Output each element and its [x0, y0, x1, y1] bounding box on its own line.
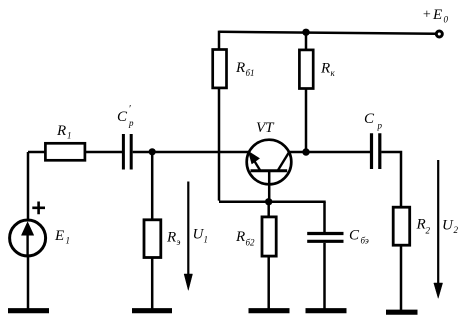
svg-text:R: R [56, 123, 66, 139]
terminal +E0 [436, 31, 442, 37]
svg-text:R: R [166, 230, 176, 246]
transistor emitter diagonal with arrow [249, 152, 261, 171]
voltage source E1 [27, 152, 30, 220]
resistor Rk [299, 50, 313, 89]
wire base rail [219, 201, 326, 204]
svg-text:R: R [235, 229, 245, 245]
wire Re bottom lead [151, 258, 154, 311]
svg-text:бэ: бэ [361, 236, 369, 246]
wire collector to Cp [289, 151, 370, 154]
capacitor Cp [372, 133, 380, 169]
svg-text:2: 2 [454, 225, 459, 235]
svg-text:1: 1 [67, 131, 72, 141]
svg-text:C: C [364, 111, 375, 127]
svg-text:E: E [54, 228, 64, 244]
resistor Re [144, 220, 161, 258]
svg-text:VT: VT [256, 120, 275, 136]
transistor VT body [247, 140, 292, 185]
node top rail / Rk junction [302, 29, 309, 36]
node collector / Rk junction [302, 148, 309, 155]
svg-text:0: 0 [444, 15, 449, 25]
transistor collector diagonal [278, 152, 290, 171]
wire R2 bottom lead [400, 245, 403, 312]
wire Cbe bottom lead [323, 243, 326, 310]
resistor R1 [45, 143, 85, 160]
wire Rb1 top lead [218, 31, 221, 50]
capacitor Cbe [307, 234, 343, 242]
resistor Rb2 [262, 217, 276, 256]
svg-text:E: E [432, 7, 442, 23]
capacitor C'p [123, 134, 131, 170]
svg-text:б2: б2 [246, 238, 256, 248]
svg-text:р: р [128, 118, 134, 128]
svg-text:э: э [177, 237, 181, 247]
ground under Re [132, 308, 172, 313]
transistor base bar [251, 169, 288, 172]
svg-text:1: 1 [204, 235, 209, 245]
svg-text:2: 2 [426, 226, 431, 236]
ground under R2 [386, 310, 418, 315]
wire base rail corner down to Cbe [323, 202, 326, 232]
wire E1 bottom lead [27, 256, 30, 310]
arrow U2 [437, 160, 439, 285]
ground under Rb2 [249, 308, 290, 313]
node input / Re junction [149, 148, 156, 155]
svg-text:U: U [442, 218, 454, 234]
wire C'p to transistor emitter [133, 151, 249, 154]
resistor Rb1 [213, 50, 227, 88]
transistor base lead [268, 171, 271, 202]
svg-text:р: р [377, 121, 383, 131]
plus sign of E1 [32, 202, 45, 215]
svg-text:R: R [235, 60, 245, 76]
wire Cp to R2 corner [381, 152, 401, 208]
wire Rb2 bottom lead [267, 256, 270, 310]
wire R1 to capacitor C'p [85, 151, 122, 154]
wire Rk bottom lead down to collector node [305, 89, 308, 153]
resistor R2 [393, 207, 410, 245]
ground under E1 [8, 308, 49, 313]
svg-text:R: R [320, 61, 330, 77]
svg-text:C: C [117, 109, 128, 125]
node base junction [265, 198, 272, 205]
svg-text:+: + [422, 8, 431, 23]
svg-text:1: 1 [66, 236, 71, 246]
wire input from E1 corner to R1 [28, 151, 46, 154]
ground under Cbe [306, 308, 347, 313]
svg-text:C: C [349, 228, 360, 244]
arrow U1 [187, 182, 189, 277]
svg-text:R: R [416, 217, 426, 233]
wire Re top lead [151, 152, 154, 220]
wire Rk top lead [305, 33, 308, 50]
wire Rb1 bottom lead down to base rail [218, 88, 221, 201]
svg-text:б1: б1 [246, 68, 255, 78]
wire Rb2 top lead [267, 202, 270, 217]
wire top supply rail [219, 32, 436, 34]
arrow inside E1 [26, 233, 28, 255]
